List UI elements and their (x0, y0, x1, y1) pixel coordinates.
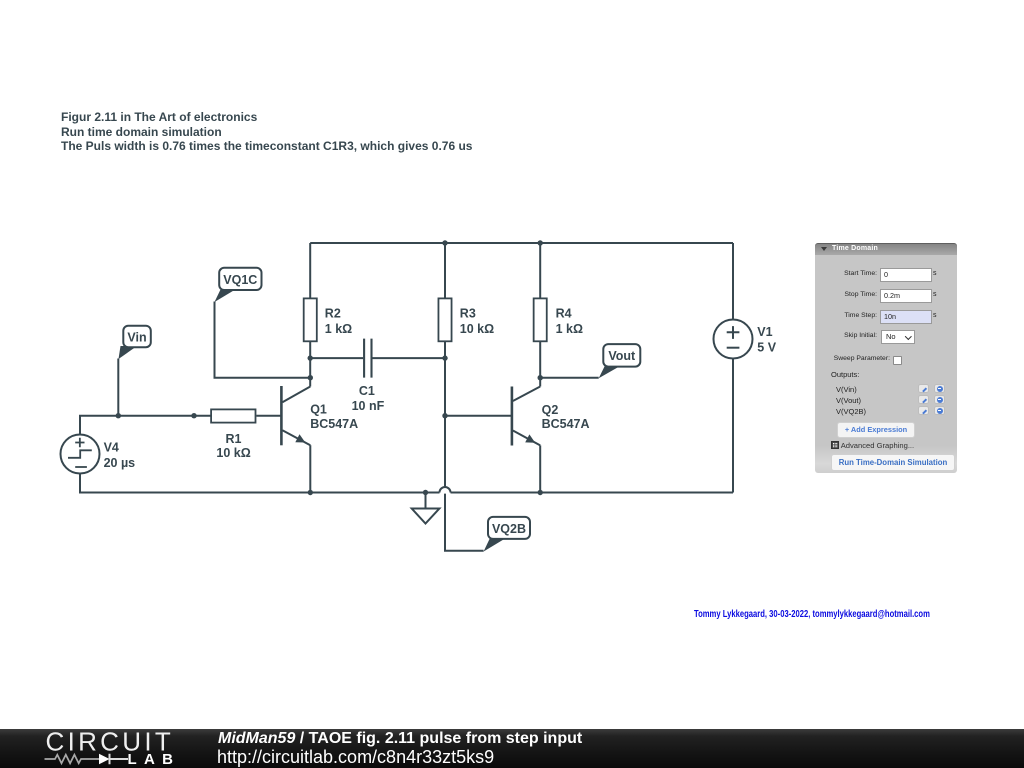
svg-text:VQ1C: VQ1C (223, 273, 257, 287)
svg-text:R2: R2 (325, 306, 341, 320)
svg-text:VQ2B: VQ2B (492, 522, 526, 536)
wire hop over VQ2B net (440, 487, 451, 493)
svg-text:R3: R3 (460, 306, 476, 320)
resistor R1 (211, 409, 255, 422)
heading text (61, 110, 472, 154)
svg-text:5 V: 5 V (757, 340, 776, 354)
wire VQ1C tap (215, 302, 311, 378)
svg-text:Q2: Q2 (542, 403, 559, 417)
svg-text:1 kΩ: 1 kΩ (556, 322, 583, 336)
capacitor C1 (364, 339, 371, 378)
wire Vout (540, 377, 599, 379)
resistor R3 (438, 298, 451, 341)
wire bottom rail (80, 474, 733, 493)
simulation settings panel (815, 243, 957, 473)
svg-text:Q1: Q1 (310, 403, 327, 417)
svg-text:LAB: LAB (128, 751, 181, 768)
voltage source V1 (714, 320, 753, 359)
resistor R2 (304, 298, 317, 341)
svg-text:R4: R4 (556, 306, 572, 320)
wire top rail (310, 242, 733, 244)
wire Q2 base (445, 415, 512, 417)
junction dots (116, 240, 543, 495)
node VQ1C flag (215, 268, 262, 302)
svg-text:R1: R1 (226, 432, 242, 446)
wire VQ2B vertical (445, 416, 484, 551)
svg-text:C1: C1 (359, 384, 375, 398)
node VQ2B flag (484, 517, 530, 552)
wire Vin tap (117, 359, 119, 416)
wire R4 branch (539, 243, 541, 387)
node Vout flag (599, 344, 641, 378)
CircuitLab logo (20, 729, 190, 768)
svg-text:10 kΩ: 10 kΩ (460, 322, 494, 336)
wire Q2 emitter down (539, 445, 541, 492)
wire C1 right (373, 357, 446, 359)
transistor Q1 (281, 386, 310, 445)
svg-text:10 nF: 10 nF (352, 399, 385, 413)
voltage source V4 (step) (61, 435, 100, 474)
svg-text:1 kΩ: 1 kΩ (325, 322, 352, 336)
svg-text:V1: V1 (757, 325, 772, 339)
node Vin flag (119, 326, 151, 359)
annotation (author) (694, 609, 930, 620)
svg-text:V4: V4 (104, 441, 119, 455)
wire Q1 emitter down (309, 445, 311, 492)
wire R3 branch (444, 243, 446, 416)
resistor R4 (534, 298, 547, 341)
wire V4 top to R1 (80, 416, 211, 435)
wire R1 to Q1 base (256, 415, 281, 417)
svg-text:10 kΩ: 10 kΩ (216, 446, 250, 460)
footer bar (0, 729, 1024, 768)
svg-text:BC547A: BC547A (542, 417, 590, 431)
transistor Q2 (512, 387, 540, 446)
ground (412, 493, 440, 524)
component value labels (104, 306, 777, 470)
svg-text:Vin: Vin (127, 331, 146, 345)
svg-text:BC547A: BC547A (310, 417, 358, 431)
svg-text:20 µs: 20 µs (104, 456, 136, 470)
svg-text:Vout: Vout (608, 349, 636, 363)
wire C1 left (310, 357, 363, 359)
wire V1 leads (732, 243, 734, 493)
wire R2 branch (309, 243, 311, 387)
